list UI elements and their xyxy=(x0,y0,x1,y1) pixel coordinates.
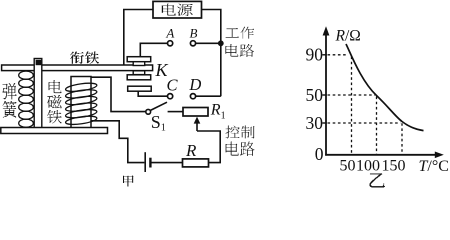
contact C circle xyxy=(168,94,173,99)
wire from power supply left side down to armature xyxy=(124,10,153,67)
tick 90 xyxy=(322,54,327,56)
label 电路 (circuit, control) xyxy=(226,142,255,156)
tick 30 xyxy=(322,122,327,124)
svg-text:B: B xyxy=(190,26,198,41)
dashed line x=100 xyxy=(376,97,378,155)
label 弹簧 (spring) xyxy=(3,83,17,117)
electromagnet core xyxy=(71,77,91,129)
contact assembly K: upper plate xyxy=(127,57,151,62)
label 电磁铁 (electromagnet) xyxy=(47,80,62,124)
resistance-temperature curve xyxy=(346,44,424,131)
rheostat wiper arrow xyxy=(196,123,198,131)
svg-text:30: 30 xyxy=(306,113,324,133)
svg-text:T/°C: T/°C xyxy=(419,158,449,175)
contact assembly K: lower insulator block xyxy=(133,71,145,75)
wire from core top right down to switch S1 xyxy=(91,77,146,111)
support post xyxy=(34,59,42,129)
rheostat R1 box xyxy=(183,108,208,117)
svg-text:50: 50 xyxy=(306,85,324,105)
pivot square on post top xyxy=(36,60,42,65)
svg-text:R1: R1 xyxy=(210,102,226,122)
svg-text:100: 100 xyxy=(356,157,380,174)
armature bar 衔铁 xyxy=(2,65,153,71)
dashed line y=30 xyxy=(328,122,401,124)
wire from contact A left and down to upper contact plate xyxy=(140,43,167,56)
dashed line x=150 xyxy=(401,123,403,154)
svg-text:150: 150 xyxy=(382,157,406,174)
label 甲 (figure jia) xyxy=(123,176,133,187)
svg-text:50: 50 xyxy=(340,157,356,174)
svg-text:90: 90 xyxy=(306,45,324,65)
wire from contact B to junction xyxy=(196,42,221,44)
svg-text:C: C xyxy=(166,75,178,94)
resistor R box xyxy=(183,159,209,167)
label 电源 (power supply) xyxy=(162,4,193,16)
label 衔铁 (armature) xyxy=(70,51,99,63)
switch S1 blade xyxy=(150,102,167,110)
svg-text:R: R xyxy=(185,141,197,160)
base plate xyxy=(1,128,108,134)
battery short plate xyxy=(149,158,151,168)
svg-text:D: D xyxy=(188,75,201,94)
wire from R to battery xyxy=(151,162,182,164)
contact B circle xyxy=(190,41,195,46)
label 工作 (working) xyxy=(225,27,254,39)
contact assembly K: upper insulator block xyxy=(133,62,145,66)
power supply box 电源 xyxy=(153,1,202,18)
contact A circle xyxy=(168,41,173,46)
svg-text:K: K xyxy=(155,60,169,80)
label 电路 (circuit, working) xyxy=(225,44,254,57)
junction node dot xyxy=(218,40,224,46)
contact assembly K: lower plate xyxy=(127,75,151,80)
dashed line y=90 xyxy=(328,54,347,56)
tick 50 xyxy=(322,94,327,96)
wire from wiper down to resistor R xyxy=(197,131,220,163)
wire from battery to electromagnet coil (staircase) xyxy=(91,121,145,163)
wire from contact D to right bus xyxy=(196,95,221,97)
graph y-axis xyxy=(325,34,327,156)
svg-text:0: 0 xyxy=(315,144,324,164)
fixed lower contact plate xyxy=(128,86,152,91)
wire from power supply right side to right vertical bus xyxy=(202,10,221,97)
spring 弹簧 coil rings xyxy=(19,71,34,127)
battery long plate xyxy=(144,152,146,172)
svg-text:S1: S1 xyxy=(151,112,166,134)
svg-text:A: A xyxy=(165,26,174,41)
graph x-axis xyxy=(325,154,436,156)
svg-text:R/Ω: R/Ω xyxy=(335,28,361,45)
dashed line x=50 xyxy=(351,57,353,155)
contact D circle xyxy=(190,94,195,99)
label 乙 (figure yi) xyxy=(370,173,386,187)
electromagnet coil turns xyxy=(65,82,97,126)
wire from switch to rheostat R1 xyxy=(168,111,183,113)
label 控制 (control) xyxy=(226,126,255,139)
wire from lower contact plate down and right to contact C xyxy=(138,91,167,96)
dashed line y=50 xyxy=(328,94,376,96)
switch S1 pivot circle xyxy=(146,109,151,114)
